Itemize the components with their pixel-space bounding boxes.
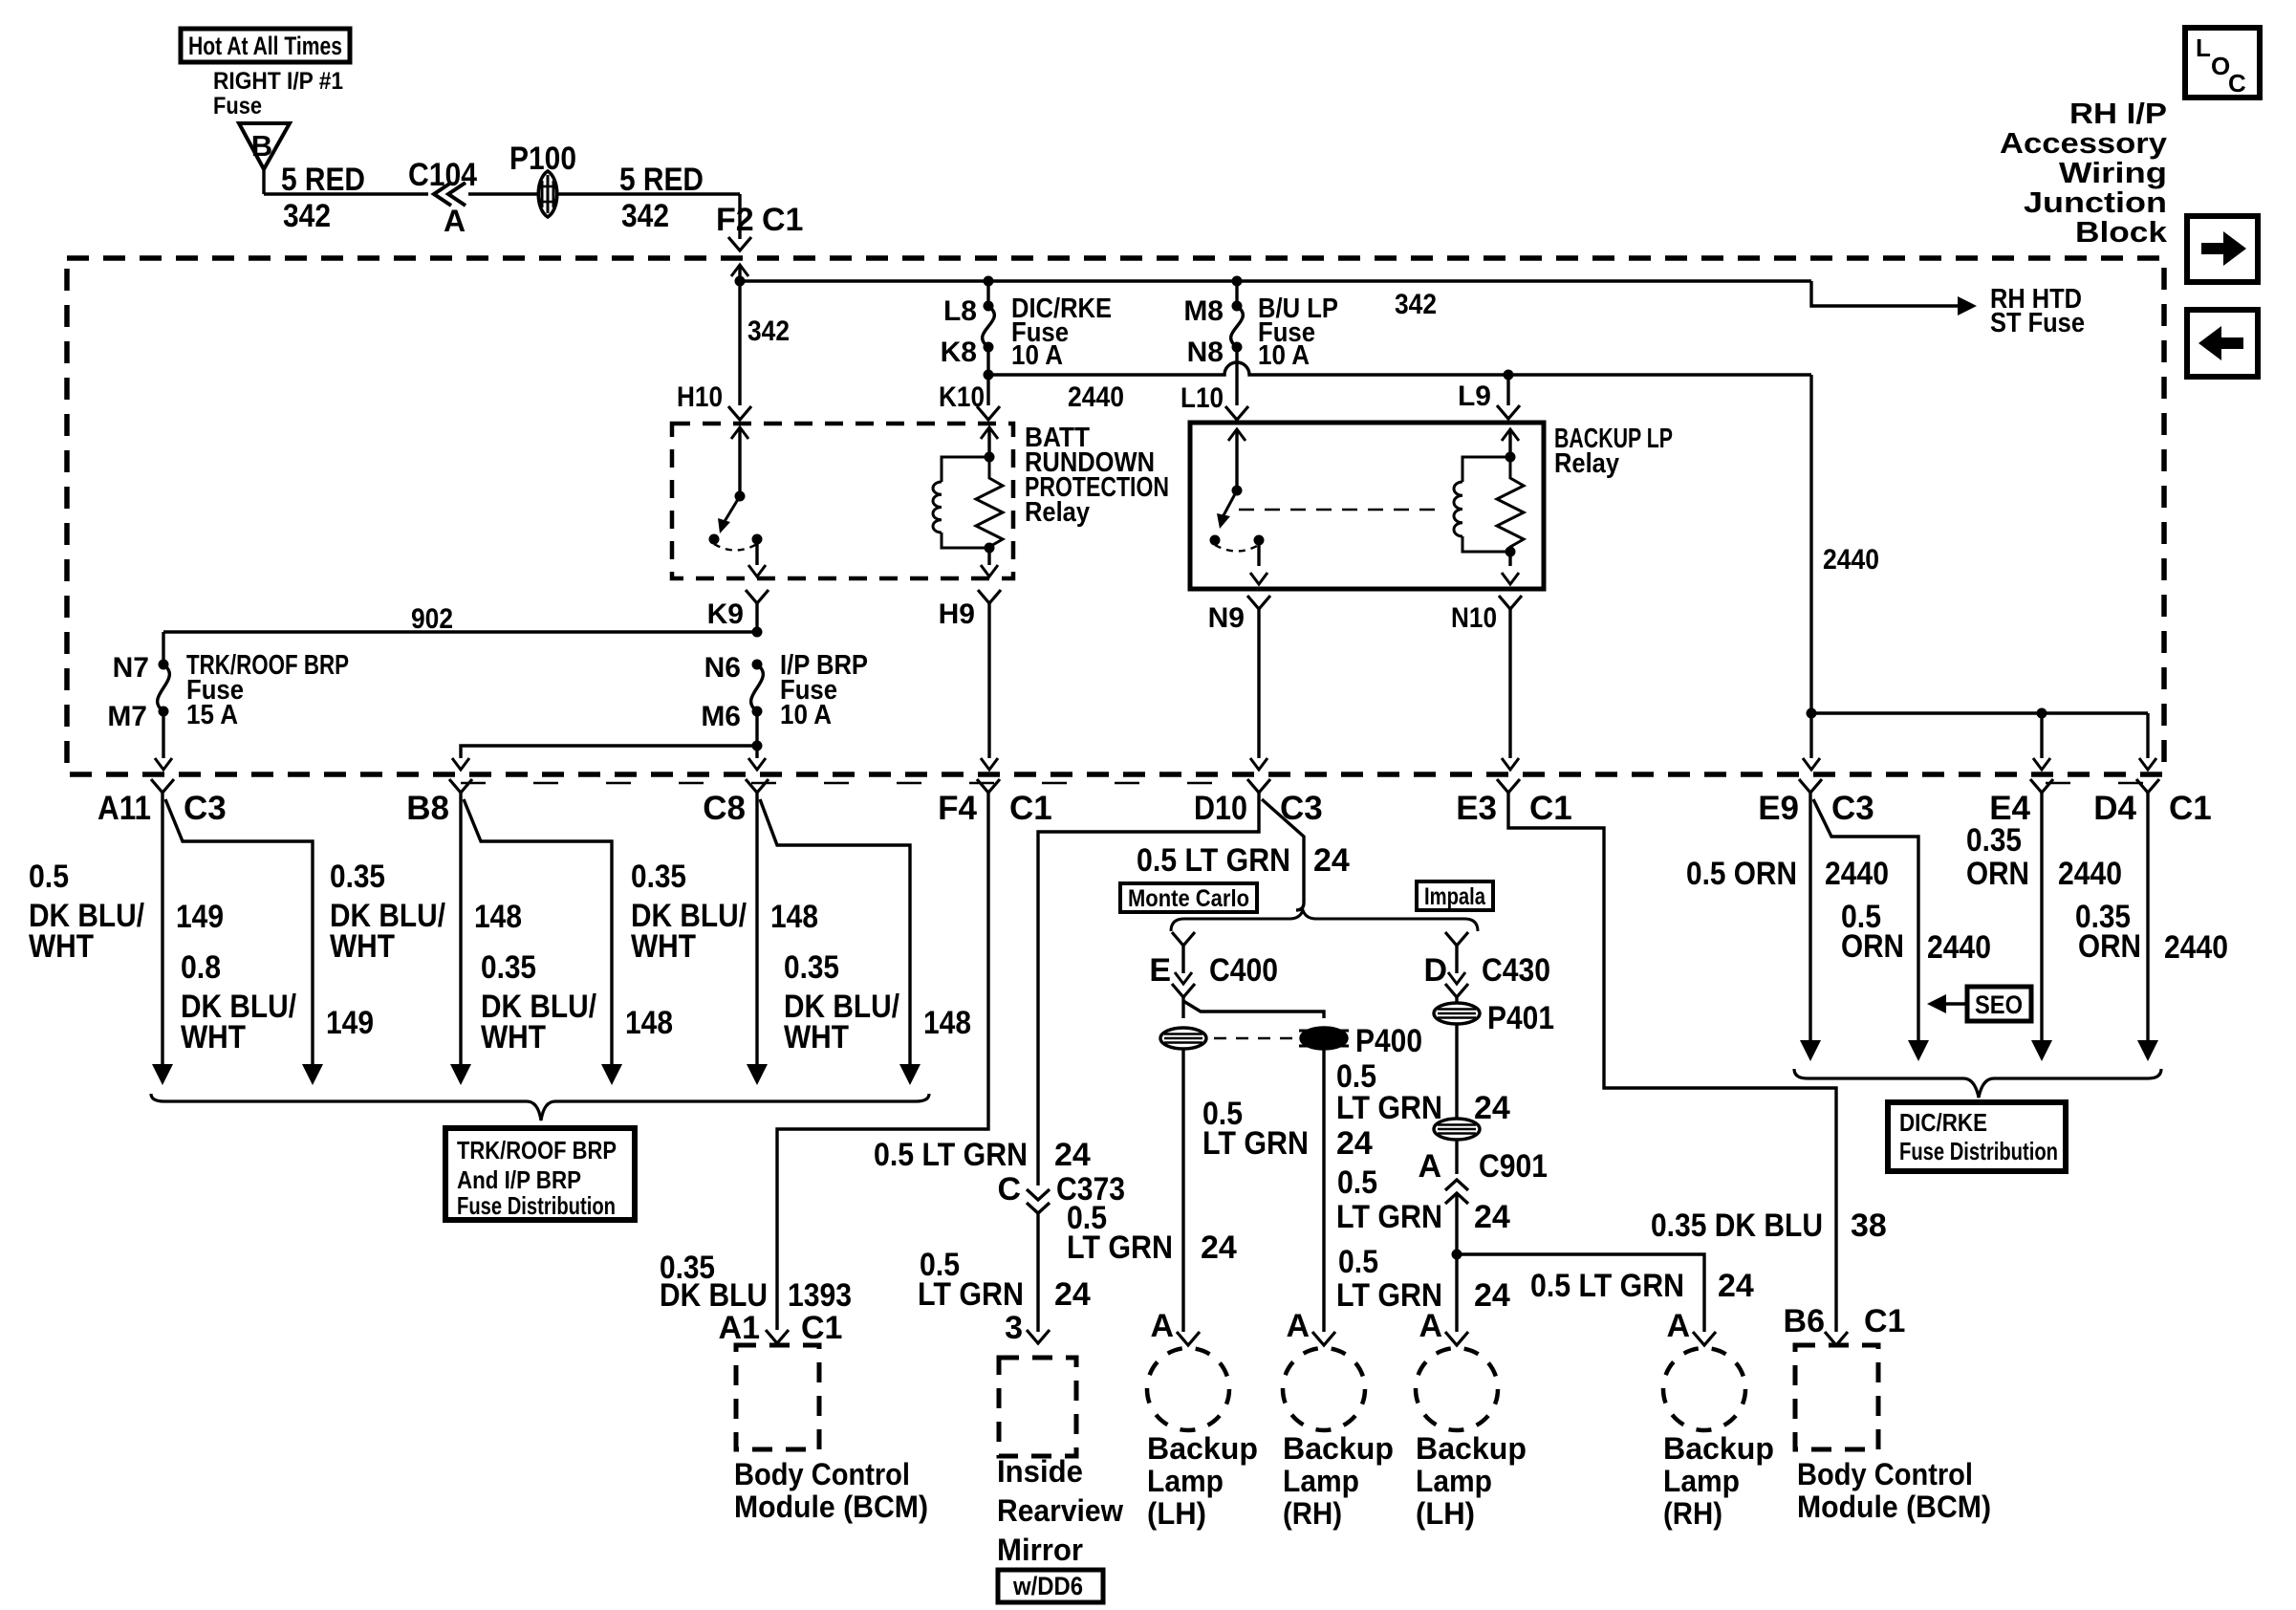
connector C104 chevrons bbox=[428, 180, 468, 208]
svg-text:LT GRN: LT GRN bbox=[918, 1276, 1024, 1313]
label box Impala bbox=[1417, 881, 1493, 910]
svg-text:C430: C430 bbox=[1482, 952, 1550, 989]
svg-text:E3: E3 bbox=[1456, 790, 1497, 827]
connector L9 bbox=[1497, 405, 1520, 419]
connector E3 at junction block bottom bbox=[1497, 779, 1520, 793]
wire A11 branch column 149 bbox=[165, 799, 313, 1068]
svg-text:RIGHT I/P #1: RIGHT I/P #1 bbox=[213, 68, 343, 95]
grommet P100 bbox=[538, 171, 557, 217]
svg-text:ST Fuse: ST Fuse bbox=[1990, 308, 2085, 338]
svg-text:24: 24 bbox=[1201, 1229, 1237, 1266]
svg-text:Lamp: Lamp bbox=[1283, 1464, 1359, 1498]
svg-text:0.8: 0.8 bbox=[181, 949, 221, 986]
fuse TRK/ROOF BRP 15A bbox=[159, 660, 169, 670]
svg-text:38: 38 bbox=[1851, 1207, 1887, 1244]
svg-text:10 A: 10 A bbox=[1258, 340, 1310, 371]
svg-text:148: 148 bbox=[770, 899, 818, 935]
svg-text:342: 342 bbox=[621, 198, 669, 234]
svg-text:149: 149 bbox=[326, 1005, 374, 1041]
nav box: right arrow bbox=[2187, 216, 2258, 282]
svg-text:A: A bbox=[1666, 1308, 1690, 1344]
svg-text:Body Control: Body Control bbox=[734, 1457, 910, 1491]
svg-text:148: 148 bbox=[474, 899, 522, 935]
svg-text:0.5: 0.5 bbox=[1337, 1164, 1377, 1201]
svg-text:Fuse Distribution: Fuse Distribution bbox=[1899, 1137, 2058, 1165]
svg-text:M7: M7 bbox=[107, 701, 147, 732]
svg-text:Hot At All Times: Hot At All Times bbox=[188, 32, 342, 60]
fuse B: RIGHT I/P #1 Fuse symbol bbox=[239, 123, 290, 169]
svg-text:WHT: WHT bbox=[631, 928, 696, 965]
wire 902 from K9 to TRK/ROOF BRP fuse bbox=[755, 603, 758, 632]
SEO box with arrow bbox=[1967, 987, 2031, 1021]
svg-text:F4: F4 bbox=[938, 790, 977, 827]
svg-text:C1: C1 bbox=[2169, 790, 2212, 827]
svg-text:A: A bbox=[444, 204, 466, 238]
svg-text:SEO: SEO bbox=[1975, 990, 2023, 1019]
svg-text:C3: C3 bbox=[184, 790, 227, 827]
svg-text:Impala: Impala bbox=[1424, 883, 1486, 910]
svg-text:WHT: WHT bbox=[784, 1019, 849, 1055]
svg-text:L10: L10 bbox=[1180, 382, 1224, 414]
wire: drop to F2 bbox=[738, 194, 741, 239]
svg-text:A: A bbox=[1418, 1148, 1441, 1185]
wire E3 to BCM B6: 0.35 DK BLU 38 bbox=[1508, 793, 1836, 1332]
svg-text:Backup: Backup bbox=[1283, 1431, 1394, 1466]
svg-text:B6: B6 bbox=[1784, 1303, 1825, 1339]
svg-text:0.5 ORN: 0.5 ORN bbox=[1686, 856, 1797, 892]
wire below C373 to mirror bbox=[1036, 1213, 1039, 1332]
junction block dashed border bbox=[67, 258, 2164, 774]
wire: 342 drop to H10 bbox=[738, 281, 741, 405]
svg-text:C1: C1 bbox=[1009, 790, 1052, 827]
svg-text:ORN: ORN bbox=[1841, 928, 1904, 965]
svg-text:B8: B8 bbox=[406, 790, 449, 827]
wire D10 to C373/mirror bbox=[1038, 793, 1259, 1186]
connector E4 at junction block bottom bbox=[2030, 779, 2053, 793]
svg-text:0.35 DK BLU: 0.35 DK BLU bbox=[1651, 1207, 1823, 1244]
svg-text:B: B bbox=[251, 129, 272, 163]
switch arm bbox=[724, 496, 740, 523]
svg-text:Mirror: Mirror bbox=[997, 1533, 1083, 1567]
svg-text:Relay: Relay bbox=[1025, 497, 1090, 528]
svg-text:ORN: ORN bbox=[1966, 856, 2029, 892]
svg-text:A: A bbox=[1286, 1308, 1310, 1344]
drops to E9 E4 D4 bbox=[1809, 713, 1812, 758]
svg-text:N7: N7 bbox=[113, 652, 149, 684]
junction to RH impala lamp bbox=[1452, 1250, 1462, 1260]
svg-text:24: 24 bbox=[1474, 1090, 1510, 1126]
svg-text:(RH): (RH) bbox=[1283, 1496, 1342, 1531]
relay actuation dashed link bbox=[1239, 509, 1445, 511]
svg-text:Rearview: Rearview bbox=[997, 1493, 1123, 1528]
label: Hot At All Times box bbox=[181, 29, 350, 62]
svg-text:Junction: Junction bbox=[2024, 185, 2167, 219]
svg-text:10 A: 10 A bbox=[780, 700, 832, 730]
connector A11 at junction block bottom bbox=[151, 779, 174, 793]
wire D10 diagonal to lamp distribution stub bbox=[1262, 799, 1304, 910]
node L9 tap bbox=[1504, 370, 1514, 381]
svg-text:24: 24 bbox=[1474, 1199, 1510, 1235]
svg-text:P400: P400 bbox=[1355, 1023, 1422, 1059]
svg-text:24: 24 bbox=[1474, 1277, 1510, 1314]
svg-text:H9: H9 bbox=[939, 598, 975, 630]
svg-text:DIC/RKE: DIC/RKE bbox=[1899, 1108, 1987, 1137]
svg-text:342: 342 bbox=[1395, 289, 1437, 320]
connector L10 bbox=[1225, 406, 1248, 420]
svg-text:C1: C1 bbox=[1529, 790, 1572, 827]
svg-text:LT GRN: LT GRN bbox=[1336, 1199, 1442, 1235]
svg-text:2440: 2440 bbox=[1068, 381, 1124, 413]
wire: 2440 bus with hop over L10 wire bbox=[988, 362, 1811, 375]
svg-text:P401: P401 bbox=[1487, 1000, 1554, 1036]
svg-text:C104: C104 bbox=[408, 157, 477, 193]
connector D / C430 bbox=[1445, 932, 1468, 946]
svg-text:A: A bbox=[1150, 1308, 1174, 1344]
connector F4 at junction block bottom bbox=[977, 779, 1000, 793]
label box: TRK/ROOF BRP And I/P BRP Fuse Distribution bbox=[445, 1128, 635, 1220]
svg-text:D: D bbox=[1423, 952, 1447, 989]
svg-text:24: 24 bbox=[1313, 842, 1350, 879]
wire C8 branch column 148 bbox=[760, 799, 910, 1068]
node: 342 bus entry arrow bbox=[731, 265, 748, 276]
wire B8 branch column 148 bbox=[464, 799, 612, 1068]
svg-text:E9: E9 bbox=[1758, 790, 1799, 827]
svg-text:K9: K9 bbox=[707, 598, 744, 630]
svg-text:DK BLU: DK BLU bbox=[660, 1277, 768, 1314]
svg-text:0.35: 0.35 bbox=[330, 859, 385, 895]
svg-text:C8: C8 bbox=[703, 790, 746, 827]
svg-text:M8: M8 bbox=[1183, 295, 1224, 327]
brace under DIC/RKE group bbox=[1794, 1069, 2161, 1098]
svg-text:(LH): (LH) bbox=[1147, 1496, 1206, 1531]
svg-text:Fuse Distribution: Fuse Distribution bbox=[457, 1191, 616, 1220]
svg-text:Lamp: Lamp bbox=[1416, 1464, 1492, 1498]
svg-text:TRK/ROOF BRP: TRK/ROOF BRP bbox=[457, 1136, 617, 1164]
wire E9 branch column 0.5 ORN 2440 bbox=[1813, 799, 1918, 1042]
distribution brace (opens down) bbox=[1171, 910, 1478, 931]
wire E9 column 0.5 ORN 2440 bbox=[1809, 793, 1811, 1042]
svg-text:C1: C1 bbox=[762, 202, 803, 238]
component: Body Control Module (BCM) #2 dashed box bbox=[1795, 1345, 1878, 1449]
grommet P400 left bbox=[1160, 1028, 1206, 1049]
svg-text:902: 902 bbox=[411, 603, 453, 635]
connector H9 bbox=[978, 590, 1001, 603]
connector F2/C1 fork bbox=[728, 237, 751, 250]
wire F4 to BCM A1: 0.35 DK BLU 1393 bbox=[777, 793, 988, 1330]
wire: 5 RED 342 from fuse to junction block bbox=[262, 169, 265, 194]
wire B8 column 148 bbox=[459, 793, 462, 1068]
svg-text:Block: Block bbox=[2075, 215, 2168, 249]
connector H10 bbox=[728, 406, 751, 420]
connector E9 at junction block bottom bbox=[1799, 779, 1822, 793]
grommet (impala body pass-through) bbox=[1434, 1119, 1480, 1140]
svg-text:0.5: 0.5 bbox=[1338, 1244, 1378, 1280]
connector D4 at junction block bottom bbox=[2136, 779, 2159, 793]
grommet P401 bbox=[1434, 1003, 1480, 1024]
svg-text:Body Control: Body Control bbox=[1797, 1457, 1973, 1491]
svg-text:2440: 2440 bbox=[1927, 929, 1991, 966]
relay box: BATT RUNDOWN PROTECTION (dashed) bbox=[672, 424, 1013, 578]
svg-text:1393: 1393 bbox=[788, 1277, 852, 1314]
label box Monte Carlo bbox=[1120, 883, 1257, 912]
svg-text:WHT: WHT bbox=[481, 1019, 546, 1055]
svg-text:0.5: 0.5 bbox=[29, 859, 69, 895]
svg-text:2440: 2440 bbox=[2058, 856, 2122, 892]
svg-text:F2: F2 bbox=[716, 202, 754, 238]
svg-text:E: E bbox=[1149, 952, 1171, 989]
svg-text:3: 3 bbox=[1005, 1310, 1023, 1346]
svg-text:A: A bbox=[1419, 1308, 1442, 1344]
switch in BACKUP LP relay bbox=[1228, 429, 1245, 441]
svg-text:C1: C1 bbox=[1864, 1303, 1905, 1339]
svg-text:C3: C3 bbox=[1831, 790, 1874, 827]
connector D10 at junction block bottom bbox=[1247, 779, 1270, 793]
wire N9 down to D10 bbox=[1257, 609, 1260, 758]
connector N9 bbox=[1247, 596, 1270, 609]
svg-text:P100: P100 bbox=[509, 141, 576, 177]
svg-text:And I/P BRP: And I/P BRP bbox=[457, 1165, 581, 1194]
connector N10 bbox=[1499, 596, 1522, 609]
switch in BATT RUNDOWN relay bbox=[731, 427, 748, 439]
connector C8 at junction block bottom bbox=[746, 779, 769, 793]
grommet P400 right (filled) bbox=[1301, 1028, 1347, 1049]
svg-text:D4: D4 bbox=[2093, 790, 2136, 827]
svg-text:2440: 2440 bbox=[1823, 544, 1879, 576]
wire N10 down to E3 bbox=[1508, 609, 1511, 758]
svg-text:N9: N9 bbox=[1208, 602, 1245, 634]
svg-text:C400: C400 bbox=[1209, 952, 1278, 989]
connector K9 bbox=[746, 590, 769, 603]
svg-text:Backup: Backup bbox=[1416, 1431, 1527, 1466]
svg-text:0.35: 0.35 bbox=[1966, 822, 2022, 859]
wire A11 column 149 bbox=[161, 793, 163, 1068]
svg-text:15 A: 15 A bbox=[186, 700, 238, 730]
LOC box bbox=[2185, 28, 2260, 98]
svg-text:149: 149 bbox=[176, 899, 224, 935]
svg-text:Lamp: Lamp bbox=[1663, 1464, 1740, 1498]
wire: step to RH HTD ST Fuse bbox=[1811, 281, 1961, 306]
svg-text:D10: D10 bbox=[1194, 790, 1247, 827]
svg-text:A11: A11 bbox=[97, 790, 151, 827]
svg-text:LT GRN: LT GRN bbox=[1202, 1125, 1309, 1162]
svg-text:RH I/P: RH I/P bbox=[2069, 97, 2167, 130]
fuse B/U LP 10A bbox=[1232, 276, 1243, 287]
svg-text:L9: L9 bbox=[1458, 381, 1491, 412]
wire E4 column 0.35 ORN 2440 bbox=[2040, 793, 2043, 1042]
component: Body Control Module (BCM) dashed box bbox=[736, 1345, 819, 1449]
svg-text:K10: K10 bbox=[939, 381, 985, 413]
wire: 342 bus bbox=[740, 279, 1811, 282]
svg-text:(LH): (LH) bbox=[1416, 1496, 1475, 1531]
svg-text:10 A: 10 A bbox=[1011, 340, 1063, 371]
connector K10 bbox=[977, 406, 1000, 420]
branch to B8 bbox=[461, 746, 757, 758]
svg-text:148: 148 bbox=[625, 1005, 673, 1041]
svg-text:N6: N6 bbox=[704, 652, 741, 684]
svg-text:N8: N8 bbox=[1187, 337, 1224, 368]
svg-text:Relay: Relay bbox=[1554, 448, 1619, 479]
svg-text:0.5 LT GRN: 0.5 LT GRN bbox=[1530, 1268, 1684, 1304]
svg-text:A1: A1 bbox=[719, 1310, 760, 1346]
svg-text:2440: 2440 bbox=[2164, 929, 2228, 966]
svg-text:WHT: WHT bbox=[330, 928, 395, 965]
connector B6 fork bbox=[1825, 1332, 1848, 1345]
svg-text:2440: 2440 bbox=[1825, 856, 1889, 892]
svg-text:C: C bbox=[997, 1171, 1021, 1207]
svg-text:Backup: Backup bbox=[1147, 1431, 1258, 1466]
P400 dashed link bbox=[1214, 1037, 1293, 1040]
branch to RH lamp via P400 right bbox=[1183, 1001, 1324, 1018]
svg-text:24: 24 bbox=[1054, 1137, 1091, 1173]
svg-text:0.5 LT GRN: 0.5 LT GRN bbox=[874, 1137, 1028, 1173]
wire D4 column 0.35 ORN 2440 bbox=[2146, 793, 2149, 1042]
connector A1 fork bbox=[766, 1330, 789, 1343]
svg-text:Accessory: Accessory bbox=[2000, 126, 2168, 160]
relay box: BACKUP LP (solid) bbox=[1190, 423, 1544, 589]
connector 3 fork bbox=[1027, 1330, 1050, 1343]
label box: DIC/RKE Fuse Distribution bbox=[1888, 1102, 2066, 1171]
label box w/DD6 bbox=[998, 1570, 1103, 1602]
svg-text:(RH): (RH) bbox=[1663, 1496, 1722, 1531]
svg-text:Backup: Backup bbox=[1663, 1431, 1774, 1466]
wire below C400 bbox=[1181, 997, 1184, 1018]
svg-text:342: 342 bbox=[747, 315, 790, 347]
svg-text:WHT: WHT bbox=[29, 928, 94, 965]
svg-text:L: L bbox=[2196, 33, 2211, 62]
fuse DIC/RKE 10A bbox=[984, 276, 994, 287]
svg-text:L8: L8 bbox=[943, 295, 977, 327]
svg-text:M6: M6 bbox=[701, 701, 741, 732]
connector E / C400 bbox=[1172, 932, 1195, 946]
svg-text:148: 148 bbox=[923, 1005, 971, 1041]
svg-text:C1: C1 bbox=[801, 1310, 842, 1346]
component: Inside Rearview Mirror dashed box bbox=[999, 1358, 1076, 1456]
wire H9 down to F4 bbox=[987, 603, 990, 758]
svg-text:Fuse: Fuse bbox=[213, 93, 262, 120]
svg-text:0.35: 0.35 bbox=[481, 949, 536, 986]
svg-text:WHT: WHT bbox=[181, 1019, 246, 1055]
coil of BACKUP LP relay bbox=[1502, 429, 1519, 441]
svg-text:K8: K8 bbox=[941, 337, 977, 368]
svg-text:Inside: Inside bbox=[997, 1454, 1083, 1489]
svg-text:24: 24 bbox=[1718, 1268, 1754, 1304]
svg-text:H10: H10 bbox=[677, 381, 723, 413]
svg-text:0.35: 0.35 bbox=[784, 949, 839, 986]
coil of BATT RUNDOWN relay bbox=[981, 427, 998, 439]
svg-text:342: 342 bbox=[283, 198, 331, 234]
switch arm bbox=[1223, 490, 1237, 517]
svg-text:5 RED: 5 RED bbox=[281, 162, 365, 198]
svg-text:LT GRN: LT GRN bbox=[1067, 1229, 1173, 1266]
wire: 2440 drop at right bbox=[1809, 375, 1812, 713]
thin dashed connector line below border bbox=[461, 782, 1219, 784]
svg-text:N10: N10 bbox=[1451, 602, 1497, 634]
connector B8 at junction block bottom bbox=[449, 779, 472, 793]
brace under fuse distribution group bbox=[151, 1094, 929, 1120]
svg-text:24: 24 bbox=[1054, 1276, 1091, 1313]
svg-text:w/DD6: w/DD6 bbox=[1012, 1572, 1083, 1600]
fuse I/P BRP 10A bbox=[752, 660, 763, 670]
svg-text:24: 24 bbox=[1336, 1125, 1373, 1162]
svg-text:C901: C901 bbox=[1479, 1148, 1548, 1185]
svg-text:Module (BCM): Module (BCM) bbox=[1797, 1490, 1991, 1524]
svg-text:Module (BCM): Module (BCM) bbox=[734, 1490, 928, 1524]
svg-text:Wiring: Wiring bbox=[2059, 156, 2167, 189]
svg-text:C: C bbox=[2228, 69, 2246, 98]
wire C8 column 148 bbox=[755, 793, 758, 1068]
svg-text:ORN: ORN bbox=[2078, 928, 2141, 965]
svg-text:0.5 LT GRN: 0.5 LT GRN bbox=[1137, 842, 1290, 879]
svg-text:Lamp: Lamp bbox=[1147, 1464, 1224, 1498]
svg-text:LT GRN: LT GRN bbox=[1336, 1090, 1442, 1126]
svg-text:0.35: 0.35 bbox=[631, 859, 686, 895]
svg-text:Monte Carlo: Monte Carlo bbox=[1128, 885, 1249, 912]
nav box: left arrow bbox=[2187, 310, 2258, 377]
svg-text:5 RED: 5 RED bbox=[619, 162, 704, 198]
